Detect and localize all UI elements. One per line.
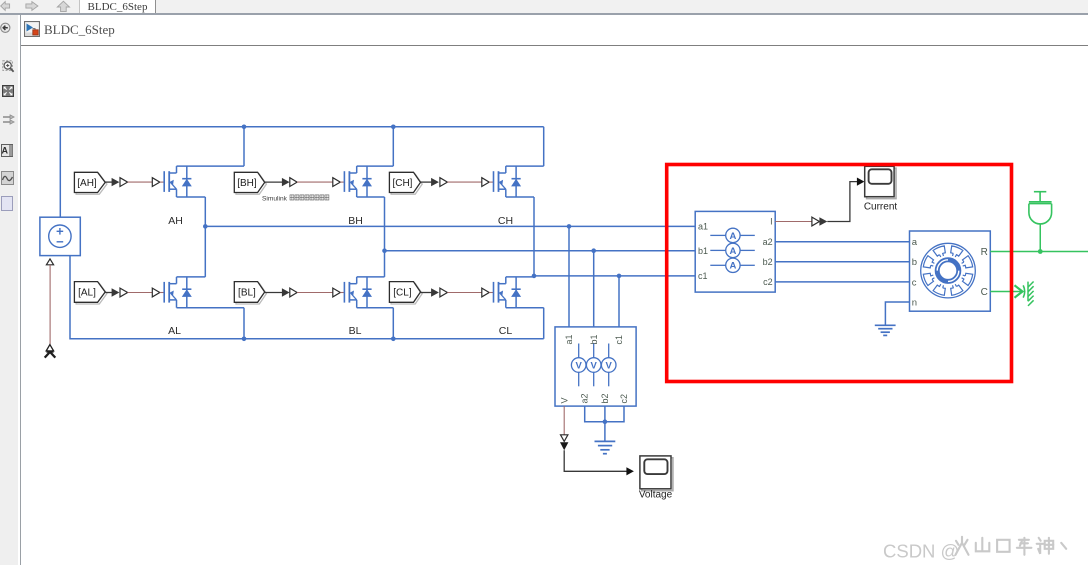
wire: BL drain — [357, 276, 385, 278]
wire: b1 tap to voltage sensor — [593, 251, 595, 327]
DC voltage source block — [40, 217, 80, 255]
PS port arrow BH — [333, 178, 341, 187]
svg-text:b2: b2 — [600, 393, 610, 403]
Simulink-PS converter AH — [120, 178, 128, 187]
mosfet CL — [494, 277, 522, 308]
svg-text:AL: AL — [168, 325, 181, 337]
wire: CH drain — [506, 165, 544, 167]
mosfet BH — [344, 166, 372, 197]
svg-text:c2: c2 — [763, 277, 773, 287]
back arrow — [1, 2, 10, 11]
signal arrowhead CH — [431, 178, 439, 186]
mosfet CH — [494, 166, 522, 197]
svg-text:BH: BH — [348, 215, 363, 227]
wire: AH source — [177, 196, 206, 198]
svg-text:[CL]: [CL] — [393, 287, 412, 298]
arrowhead into Voltage scope — [626, 467, 634, 475]
Simulink-PS converter BH — [290, 178, 297, 187]
svg-text:c1: c1 — [698, 271, 708, 281]
current sensor subsystem block — [695, 211, 775, 292]
wire: phase B node line — [385, 250, 696, 252]
signal line BL tag to converter — [265, 292, 283, 294]
signal line BH tag to converter — [265, 181, 283, 183]
wire: a2 to motor a — [775, 241, 909, 243]
reference marker triangle — [46, 345, 53, 351]
wire: DC source top to rail — [59, 127, 61, 218]
wire: AH drain riser — [243, 127, 245, 166]
PS port arrow AH — [152, 178, 160, 187]
wire: CL source dropper — [543, 308, 545, 339]
top tab strip — [0, 0, 1088, 13]
ammeter A1 — [710, 228, 755, 242]
wire: motor n to ground — [885, 302, 909, 325]
gate stub CL — [489, 292, 493, 294]
wire: phase C vertical (CH source / CL drain) — [533, 197, 535, 277]
gate stub AL — [160, 292, 164, 294]
junction dot top rail at BH — [391, 125, 396, 130]
PS line V output — [563, 406, 565, 435]
source reference port triangle — [46, 259, 53, 265]
wire: BH source — [357, 196, 385, 198]
svg-text:a2: a2 — [580, 393, 590, 403]
voltmeter V1 — [571, 344, 586, 387]
PS port arrow CH — [482, 178, 489, 187]
wire: DC source bottom to bottom rail — [70, 256, 544, 339]
wire: AL source — [177, 307, 245, 309]
wire: motor C mechanical line — [990, 291, 1022, 293]
ground under motor n — [875, 325, 896, 335]
junction dot c1 tap — [617, 274, 622, 279]
wire: CH drain riser — [543, 127, 545, 166]
junction dot top rail at AH — [242, 125, 247, 130]
svg-text:b: b — [912, 257, 917, 268]
PS-Simulink converter at I — [812, 217, 820, 226]
svg-text:b2: b2 — [763, 257, 773, 267]
wire: CL source — [506, 307, 544, 309]
mosfet AL — [164, 277, 192, 308]
toolbar icon annotation — [1, 144, 13, 157]
ammeter A3 — [710, 258, 755, 272]
svg-text:V: V — [606, 360, 613, 371]
PS line BL — [297, 292, 333, 294]
svg-text:Voltage: Voltage — [639, 490, 673, 501]
current sensor port labels right — [763, 217, 773, 288]
svg-text:C: C — [981, 287, 988, 298]
svg-text:b1: b1 — [698, 246, 708, 256]
wire: inertia stem — [1039, 224, 1041, 252]
wire: AL drain — [177, 276, 206, 278]
svg-text:I: I — [770, 217, 773, 227]
junction dot b1 tap — [591, 248, 596, 253]
PS port arrow AL — [152, 288, 160, 297]
PS line CL — [447, 292, 481, 294]
from tag [CH] — [389, 172, 422, 194]
PS line BH — [297, 181, 333, 183]
wire: BL source dropper — [392, 308, 394, 339]
collapse circle button — [0, 22, 12, 34]
wire: CH source — [506, 196, 534, 198]
signal arrowhead BH — [282, 178, 290, 186]
mosfet BL — [344, 277, 372, 308]
svg-text:CSDN @: CSDN @ — [883, 541, 959, 562]
svg-text:[CH]: [CH] — [392, 178, 412, 189]
left toolbar column — [0, 15, 18, 565]
wire: c2 to motor c — [775, 281, 909, 283]
motor rotor icon — [921, 243, 976, 298]
watermark chinese glyphs — [956, 537, 1067, 555]
ground under voltage sensor — [595, 441, 616, 453]
svg-text:BL: BL — [349, 325, 362, 337]
active tab BLDC_6Step — [79, 0, 156, 13]
wire: phase C node line — [534, 275, 695, 277]
signal arrowhead after I converter — [819, 217, 827, 225]
svg-text:[AL]: [AL] — [78, 287, 96, 298]
PS-Simulink converter at V — [561, 435, 568, 442]
svg-text:b1: b1 — [589, 334, 599, 344]
gate stub AH — [160, 181, 164, 183]
tab title text — [79, 1, 156, 14]
wire: AH drain — [177, 165, 245, 167]
svg-text:V: V — [591, 360, 598, 371]
toolbar icon viewport box — [1, 196, 13, 210]
junction dot sensor join — [603, 419, 608, 424]
wire: CL drain — [506, 276, 534, 278]
toolbar icon arrows — [2, 114, 15, 125]
from tag [BH] — [234, 172, 266, 194]
toolbar icon signal wave — [1, 171, 14, 185]
inertia block icon — [1029, 192, 1052, 224]
signal line CH tag to converter — [421, 181, 432, 183]
tab strip bottom border — [0, 13, 1088, 14]
reference marker legs — [45, 352, 56, 358]
forward arrow — [26, 2, 38, 11]
signal arrowhead after V converter — [560, 442, 568, 450]
junction dot phase B — [382, 248, 387, 253]
gate stub BL — [340, 292, 344, 294]
Simulink-PS converter AL — [120, 288, 128, 297]
Simulink-PS converter CH — [440, 178, 448, 187]
Simulink-PS converter CL — [440, 288, 448, 297]
svg-text:c: c — [912, 277, 917, 288]
junction dot phase A — [203, 224, 208, 229]
wire: motor R mechanical line — [990, 251, 1088, 253]
PS port arrow BL — [333, 288, 341, 297]
svg-text:A: A — [729, 246, 736, 257]
wire: c1 tap to voltage sensor — [618, 276, 620, 327]
BLDC motor block — [910, 231, 991, 311]
svg-text:A: A — [729, 231, 736, 242]
breadcrumb bottom border — [21, 45, 1088, 46]
signal arrowhead BL — [282, 288, 290, 296]
voltmeter V3 — [601, 344, 616, 387]
svg-text:A: A — [729, 261, 736, 272]
motor port labels — [912, 237, 988, 308]
from tag [BL] — [234, 282, 266, 304]
wire: AL source dropper — [243, 308, 245, 339]
svg-text:[BH]: [BH] — [237, 178, 257, 189]
voltage sensor port labels bottom — [559, 393, 629, 403]
breadcrumb bar — [21, 15, 1088, 45]
signal line AL tag to converter — [105, 292, 112, 294]
svg-text:a1: a1 — [564, 334, 574, 344]
wire: a1 tap to voltage sensor — [568, 226, 570, 327]
junction dot R line — [1038, 249, 1043, 254]
signal line CL tag to converter — [421, 292, 432, 294]
svg-text:n: n — [912, 297, 917, 308]
Simulink-PS converter BL — [290, 288, 297, 297]
gate stub BH — [340, 181, 344, 183]
svg-text:c2: c2 — [619, 394, 629, 404]
PS line AH — [128, 181, 153, 183]
voltmeter V2 — [586, 344, 601, 387]
mosfet AH — [164, 166, 192, 197]
wire: top supply rail — [60, 126, 544, 128]
toolbar icon fit-to-view — [2, 85, 14, 97]
from tag [AL] — [74, 282, 106, 304]
svg-text:a2: a2 — [763, 237, 773, 247]
red highlight rectangle — [667, 165, 1012, 382]
svg-text:R: R — [981, 247, 988, 258]
signal wire to Voltage scope — [564, 450, 627, 471]
voltage sensor subsystem block — [555, 327, 636, 406]
breadcrumb title — [44, 22, 115, 38]
gate stub CH — [489, 181, 493, 183]
PS port arrow CL — [482, 288, 489, 297]
breadcrumb model icon — [24, 21, 40, 37]
current sensor port labels left — [698, 222, 708, 282]
svg-text:Simulink: Simulink — [262, 195, 288, 202]
navigation arrows — [0, 0, 78, 13]
wire: phase A vertical (AH source / AL drain) — [204, 197, 206, 277]
svg-text:V: V — [559, 397, 569, 403]
annotation: Simulink signal to physical signal — [262, 195, 329, 203]
wire: BH drain riser — [392, 127, 394, 166]
PS line CH — [447, 181, 481, 183]
svg-text:CL: CL — [499, 325, 513, 337]
svg-text:a: a — [912, 237, 918, 248]
from tag [CL] — [389, 282, 422, 304]
wire: b2 to motor b — [775, 261, 909, 263]
scope block Voltage — [640, 456, 673, 491]
svg-text:CH: CH — [498, 215, 513, 227]
svg-text:[AH]: [AH] — [77, 178, 97, 189]
signal arrowhead AL — [112, 288, 120, 296]
junction dot bottom rail at AL — [242, 337, 247, 342]
signal line AH tag to converter — [105, 181, 112, 183]
ammeter A2 — [710, 243, 755, 257]
wire: phase A node line — [205, 225, 695, 227]
signal wire to Current scope — [827, 182, 857, 222]
up arrow — [57, 1, 69, 11]
svg-text:V: V — [576, 360, 583, 371]
PS line source to reference — [49, 265, 51, 345]
PS line I output — [775, 221, 812, 223]
svg-text:[BL]: [BL] — [238, 287, 256, 298]
wire: BL source — [357, 307, 394, 309]
junction dot a1 tap — [567, 224, 572, 229]
scope block Current — [865, 166, 896, 198]
toolbar icon zoom — [2, 60, 15, 75]
svg-text:Current: Current — [864, 202, 898, 213]
svg-text:c1: c1 — [614, 335, 624, 345]
junction dot phase C — [532, 274, 537, 279]
canvas divider vertical line — [20, 15, 21, 565]
mechanical rotational reference — [1015, 282, 1034, 306]
wire: phase B vertical (BH source / BL drain) — [384, 197, 386, 277]
voltage sensor port labels top — [564, 334, 624, 344]
signal arrowhead CL — [431, 288, 439, 296]
wire: BH drain — [357, 165, 394, 167]
junction dot bottom rail at BL — [391, 337, 396, 342]
svg-text:a1: a1 — [698, 222, 708, 232]
svg-text:AH: AH — [168, 215, 183, 227]
PS line AL — [128, 292, 153, 294]
from tag [AH] — [74, 172, 106, 194]
signal arrowhead AH — [112, 178, 120, 186]
arrowhead into Current scope — [857, 178, 865, 186]
wire: a2 b2 c2 join — [585, 406, 624, 441]
